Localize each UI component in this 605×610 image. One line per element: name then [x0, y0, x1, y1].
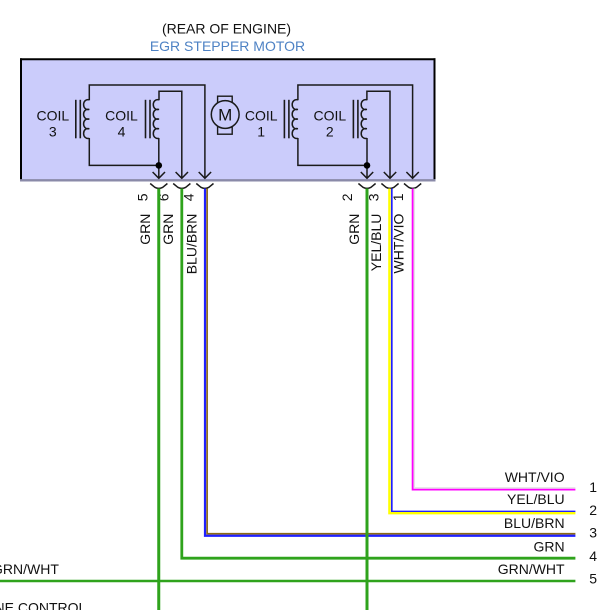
junction node left	[156, 162, 163, 169]
svg-text:1: 1	[257, 123, 265, 139]
svg-text:5: 5	[589, 571, 597, 587]
socket pin 3	[381, 184, 398, 189]
svg-text:YEL/BLU: YEL/BLU	[368, 214, 384, 272]
svg-text:(REAR OF ENGINE): (REAR OF ENGINE)	[162, 21, 291, 37]
coil L4 symbol	[146, 100, 160, 139]
wire coil3 top to pin4	[89, 85, 205, 178]
wire BLU/BRN brown stripe	[207, 189, 575, 534]
svg-text:COIL: COIL	[245, 108, 278, 124]
socket pin 4	[196, 184, 213, 189]
svg-text:GRN: GRN	[346, 214, 362, 245]
motor M1 body	[211, 101, 239, 129]
svg-text:GRN/WHT: GRN/WHT	[498, 561, 565, 577]
arrow pin 6	[176, 172, 188, 178]
EGR stepper motor box	[21, 59, 435, 180]
svg-text:YEL/BLU: YEL/BLU	[507, 491, 565, 507]
svg-text:GRN: GRN	[137, 214, 153, 245]
wire BLU/BRN pin4 to pin 3	[205, 189, 575, 536]
arrow pin 4	[199, 172, 211, 178]
svg-text:COIL: COIL	[105, 108, 138, 124]
coil L2 symbol	[353, 100, 367, 139]
arrow pin 3	[384, 172, 396, 178]
wire GRN pin5 down	[157, 189, 160, 610]
svg-text:2: 2	[339, 193, 355, 201]
wire GRN pin2 down	[366, 189, 369, 610]
coil L1 symbol	[284, 100, 298, 139]
socket pin 2	[358, 184, 375, 189]
svg-text:M: M	[218, 106, 232, 125]
svg-text:BLU/BRN: BLU/BRN	[504, 515, 565, 531]
svg-text:WHT/VIO: WHT/VIO	[505, 469, 565, 485]
svg-text:EGR STEPPER MOTOR: EGR STEPPER MOTOR	[150, 38, 305, 54]
svg-text:4: 4	[118, 123, 126, 139]
svg-text:1: 1	[589, 479, 597, 495]
svg-text:5: 5	[135, 193, 151, 201]
wire YEL/BLU blue stripe	[392, 189, 576, 512]
junction node right	[364, 162, 371, 169]
wire coil2 top to pin3	[367, 91, 390, 178]
svg-text:COIL: COIL	[313, 108, 346, 124]
wire coil4 bottom through junction to pin5	[158, 138, 160, 178]
socket pin 5	[150, 184, 167, 189]
wire coil1 top to pin1	[298, 85, 413, 178]
motor M1 brush bottom	[218, 126, 233, 134]
coil L3 symbol	[76, 100, 90, 139]
wire YEL/BLU pin3 to pin 2	[389, 189, 575, 514]
wire WHT/VIO pin1 to pin 1	[413, 189, 576, 490]
svg-text:WHT/VIO: WHT/VIO	[391, 213, 407, 273]
wire coil3 bottom to junction	[89, 138, 159, 165]
svg-text:3: 3	[49, 123, 57, 139]
svg-text:BLU/BRN: BLU/BRN	[183, 214, 199, 275]
svg-text:4: 4	[589, 548, 597, 564]
wire GRN pin6 to pin 4	[182, 189, 576, 559]
svg-text:GRN: GRN	[533, 538, 564, 554]
svg-text:GRN: GRN	[160, 214, 176, 245]
socket pin 1	[404, 184, 421, 189]
svg-text:2: 2	[589, 502, 597, 518]
svg-text:3: 3	[589, 524, 597, 540]
wire coil2 bottom through junction to pin2	[366, 138, 368, 178]
arrow pin 1	[406, 172, 418, 178]
motor M1 brush top	[218, 96, 233, 103]
arrow pin 5	[153, 172, 165, 178]
svg-text:GRN/WHT: GRN/WHT	[0, 561, 59, 577]
svg-text:(ENGINE CONTROL: (ENGINE CONTROL	[0, 599, 86, 610]
wire GRN/WHT to pin 5	[0, 580, 575, 583]
wire coil4 top to pin6	[159, 91, 182, 178]
arrow pin 2	[361, 172, 373, 178]
svg-text:2: 2	[326, 123, 334, 139]
wire WHT/VIO white stripe	[414, 189, 575, 488]
socket pin 6	[173, 184, 190, 189]
wire coil1 bottom to junction	[298, 138, 367, 165]
svg-text:COIL: COIL	[36, 108, 69, 124]
